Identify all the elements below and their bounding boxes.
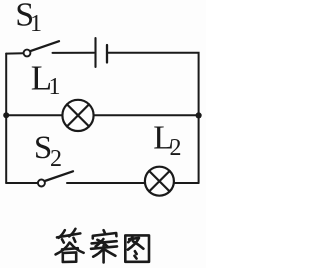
wire S1 to battery xyxy=(53,52,95,54)
wire top-left segment xyxy=(6,52,23,54)
wire middle branch right xyxy=(94,114,199,116)
wire left rail xyxy=(5,54,7,183)
svg-text:2: 2 xyxy=(170,135,182,161)
lamp L2 xyxy=(145,167,174,196)
label S1 xyxy=(15,0,42,37)
caption character TU (figure) xyxy=(125,235,149,261)
svg-text:2: 2 xyxy=(50,146,62,172)
node junction right xyxy=(196,112,202,118)
node junction left xyxy=(3,112,9,118)
caption character DA (answer) xyxy=(56,229,84,262)
lamp L1 xyxy=(62,100,93,131)
caption character AN (case) xyxy=(91,230,117,262)
label L2 xyxy=(153,119,181,161)
wire bottom-left segment xyxy=(6,182,38,184)
wire battery to top-right corner and right rail xyxy=(108,53,198,183)
label L1 xyxy=(31,58,61,100)
switch S2 xyxy=(38,171,73,186)
wire L2 to right rail xyxy=(175,182,199,184)
wire S2 to lamp L2 xyxy=(67,182,144,184)
battery cell xyxy=(96,38,108,67)
wire middle branch left xyxy=(6,114,62,116)
switch S1 xyxy=(24,41,59,56)
svg-text:1: 1 xyxy=(30,11,42,37)
svg-text:1: 1 xyxy=(49,74,61,100)
label S2 xyxy=(34,130,62,172)
